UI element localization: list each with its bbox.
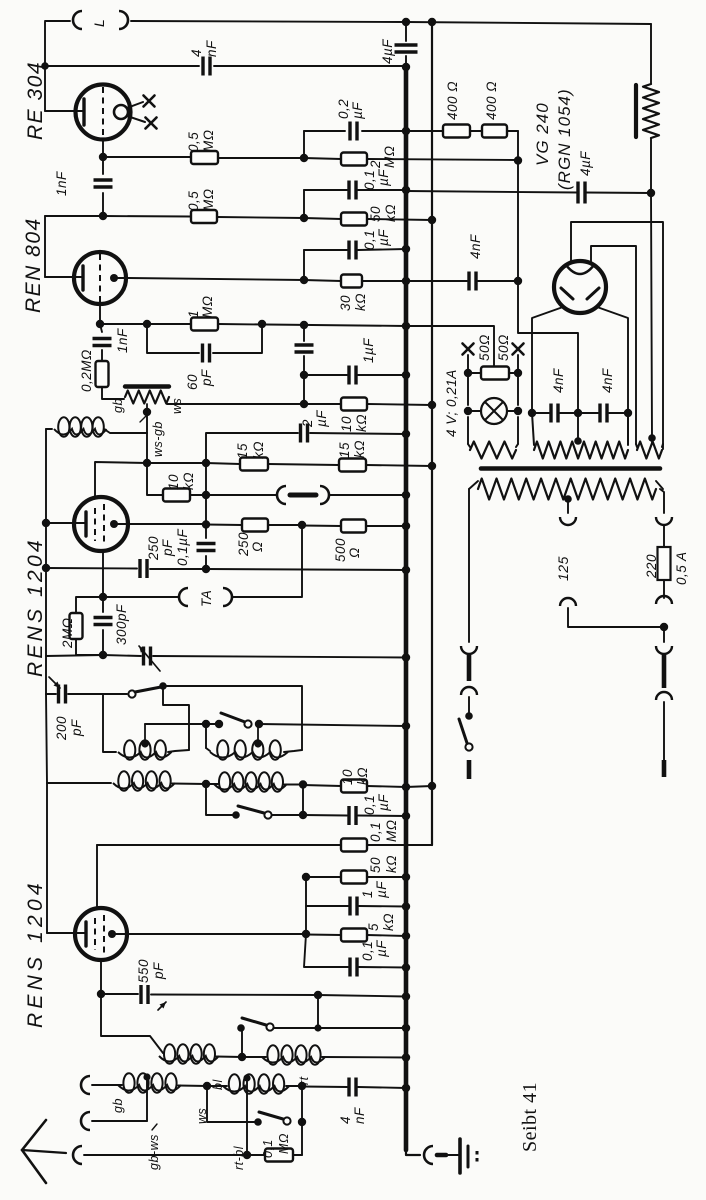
- node bus r816: [402, 812, 410, 820]
- node bus r936: [402, 932, 410, 940]
- svg-text:10: 10: [166, 474, 181, 490]
- node r525: [202, 520, 410, 530]
- svg-text:kΩ: kΩ: [383, 204, 398, 222]
- node B+ 4nF junction: [514, 277, 522, 285]
- node speaker return junction: [647, 189, 655, 197]
- wire row 400Ω: [406, 131, 518, 161]
- svg-text:nF: nF: [204, 40, 219, 57]
- svg-text:Ω: Ω: [250, 541, 265, 552]
- svg-text:kΩ: kΩ: [355, 767, 370, 785]
- wire anode decouple link: [305, 877, 307, 934]
- wire mains right lower: [663, 702, 665, 760]
- wire REN804 grid lead: [45, 216, 80, 277]
- wire jack1 to coil7: [92, 1084, 122, 1086]
- svg-text:10: 10: [339, 416, 354, 432]
- capacitor 0,1 µF (r249): [349, 229, 391, 260]
- wire rectifier anode leads: [532, 307, 628, 413]
- wire L3-L4 link: [172, 783, 218, 786]
- label VG 240 (RGN 1054): [533, 88, 574, 190]
- node TA junction: [99, 593, 107, 601]
- wire filament right column: [517, 355, 519, 444]
- REN804 anode: [110, 274, 128, 282]
- node bus r495: [402, 491, 410, 499]
- wire cathode down: [102, 569, 104, 597]
- fuse 220 0,5A: [644, 547, 689, 585]
- svg-text:kΩ: kΩ: [352, 440, 367, 458]
- capacitor 4µF (reservoir): [578, 151, 593, 204]
- node coil7-8 junction: [203, 1082, 211, 1090]
- node bias rail tap 2: [428, 462, 436, 470]
- wire RF screen lead: [96, 845, 98, 908]
- wire bias rail: [431, 22, 433, 786]
- wire detector grid lead: [46, 522, 84, 524]
- wire row 0,1µF lower: [304, 249, 406, 250]
- svg-text:550: 550: [136, 959, 151, 983]
- resistor 0,5 MΩ (lower): [186, 188, 217, 223]
- switch S1 (wave change): [128, 682, 166, 697]
- node r655: [99, 651, 107, 659]
- node bus-4µF junction: [402, 63, 410, 71]
- capacitor 1 µF (r906): [350, 881, 389, 916]
- resistor 10 kΩ (detector): [163, 472, 196, 502]
- svg-text:0,1: 0,1: [362, 170, 377, 190]
- wire row 4nF bottom: [302, 1087, 406, 1089]
- node r404: [300, 400, 436, 409]
- capacitor 0,1 µF (r815): [349, 794, 391, 825]
- rheostat gb-ws (filament): [111, 387, 184, 415]
- capacitor 0,1 µF (r190): [349, 169, 391, 200]
- svg-text:0,1: 0,1: [362, 230, 377, 250]
- connector antenna jack 2: [81, 1112, 90, 1130]
- svg-text:1µF: 1µF: [361, 338, 376, 363]
- connector earth jack: [424, 1146, 458, 1164]
- svg-text:250: 250: [236, 532, 251, 557]
- svg-text:4nF: 4nF: [600, 368, 615, 393]
- resistor 50 kΩ (r877): [341, 855, 399, 884]
- svg-text:kΩ: kΩ: [354, 414, 369, 432]
- wire coil6 to bus: [322, 1056, 406, 1059]
- wire detector anode row: [128, 524, 406, 526]
- svg-text:50Ω: 50Ω: [477, 334, 492, 361]
- node HT CT: [574, 437, 582, 445]
- svg-text:nF: nF: [352, 1107, 367, 1124]
- label REN 804: [22, 217, 45, 313]
- switch S5: [254, 1112, 290, 1126]
- svg-text:ws-gb: ws-gb: [151, 421, 165, 457]
- wire 200pF row: [46, 693, 127, 695]
- wire row 30kΩ: [304, 280, 406, 281]
- coil L2 (osc): [206, 740, 302, 760]
- svg-text:0,1: 0,1: [368, 822, 383, 842]
- resistor 5 kΩ: [341, 913, 396, 942]
- svg-text:TA: TA: [199, 590, 214, 607]
- wire 0,1µF branch r249: [303, 250, 305, 280]
- node decoupling junction A: [300, 154, 308, 162]
- coil antenna coupling: [46, 417, 107, 437]
- resistor 1 MΩ: [186, 295, 218, 330]
- resistor 0,2MΩ: [79, 349, 109, 392]
- node bus top junction: [402, 18, 436, 26]
- svg-text:kΩ: kΩ: [384, 855, 399, 873]
- wire mains right lead: [663, 627, 665, 642]
- svg-text:400 Ω: 400 Ω: [445, 81, 460, 120]
- svg-text:kΩ: kΩ: [381, 913, 396, 931]
- wire S4 feed: [241, 1028, 242, 1057]
- wire 550pF to S4: [317, 995, 319, 1028]
- svg-text:MΩ: MΩ: [384, 819, 399, 842]
- wire coil4 feed: [302, 785, 304, 816]
- svg-text:gb-ws: gb-ws: [147, 1134, 161, 1170]
- svg-text:MΩ: MΩ: [382, 145, 397, 168]
- node bus r569: [402, 566, 410, 574]
- winding primary: [469, 479, 663, 500]
- capacitor 4nF: [189, 40, 219, 76]
- connector mains left pin: [467, 760, 472, 779]
- wire row 815: [272, 815, 406, 816]
- node r1087: [298, 1082, 306, 1090]
- wire 2MΩ branch: [76, 597, 103, 655]
- wire row 0,5MΩ lower: [45, 216, 432, 220]
- svg-text:300pF: 300pF: [114, 604, 129, 645]
- wire REN804 cathode: [99, 304, 101, 324]
- svg-text:kΩ: kΩ: [353, 293, 368, 311]
- switch S2: [221, 713, 252, 728]
- svg-text:gb: gb: [111, 1098, 125, 1113]
- resistor 0,5 MΩ (upper): [186, 129, 218, 164]
- svg-text:ws: ws: [170, 398, 184, 414]
- wire TA row: [103, 596, 179, 598]
- winding HT secondary: [532, 413, 628, 459]
- svg-text:4: 4: [189, 49, 204, 57]
- resistor 250 Ω: [236, 519, 268, 558]
- node top-left corner: [44, 22, 46, 111]
- connector mains left upper: [461, 646, 477, 695]
- wire row 4nF screen: [406, 280, 518, 282]
- node detector grid: [42, 519, 50, 527]
- connector L jack: [73, 11, 128, 29]
- node grid leak junction: [99, 212, 107, 220]
- node coil4 node: [299, 780, 307, 788]
- capacitor 300 pF (variable): [114, 604, 160, 671]
- wire L4 right: [284, 784, 303, 786]
- svg-text:15: 15: [235, 443, 250, 459]
- svg-text:2: 2: [300, 419, 315, 428]
- node bus r967: [402, 963, 410, 971]
- svg-text:60: 60: [185, 374, 200, 390]
- capacitor 1nF (RE304 grid): [54, 157, 113, 216]
- node coil5-6 junction: [238, 1053, 246, 1061]
- svg-text:250: 250: [146, 536, 161, 561]
- wire rt vertical: [301, 1086, 303, 1155]
- capacitor 1nF (REN804 grid): [93, 324, 131, 361]
- label Seibt 41: [519, 1082, 541, 1152]
- wire L7-L8 link: [178, 1079, 227, 1090]
- lamp (dial light): [468, 398, 518, 424]
- svg-text:4: 4: [338, 1116, 353, 1124]
- node rt line: [298, 1118, 306, 1126]
- terminal X right: [513, 344, 524, 355]
- svg-text:0,1: 0,1: [362, 795, 377, 815]
- node bus r249: [402, 245, 410, 253]
- node coil3-4 junction: [202, 780, 210, 788]
- resistor 0,1 MΩ: [341, 819, 399, 851]
- wire RF cathode: [100, 960, 102, 994]
- resistor 0,1 MΩ (antenna): [261, 1133, 293, 1161]
- svg-text:125: 125: [555, 556, 571, 581]
- node bus r996: [402, 992, 410, 1000]
- wire S1 branch to coil1: [163, 686, 189, 750]
- connector 125 lower: [560, 598, 576, 606]
- connector 220 lower: [656, 596, 672, 604]
- svg-text:µF: µF: [374, 881, 389, 898]
- wire rt-bl tap: [232, 1078, 247, 1170]
- wire 0,2µF branch: [304, 131, 406, 158]
- node r281 decouple: [300, 276, 410, 285]
- node bus r434: [402, 430, 410, 438]
- capacitor 0,2 µF: [336, 99, 365, 141]
- svg-text:2MΩ: 2MΩ: [60, 617, 75, 649]
- wire detector cathode: [102, 551, 104, 569]
- resistor 50Ω 50Ω (hum pot): [468, 334, 518, 379]
- capacitor 550 pF (variable): [136, 959, 166, 1010]
- wire 125V tap: [567, 499, 569, 513]
- connector mains right upper: [656, 646, 672, 700]
- svg-text:MΩ: MΩ: [201, 188, 216, 211]
- capacitor 200 pF (variable): [49, 677, 84, 741]
- switch S4: [237, 1018, 273, 1032]
- node r463 junctions: [143, 459, 210, 467]
- tube RENS 1204 (detector): [74, 497, 128, 551]
- resistor 400 Ω (second): [482, 81, 507, 138]
- label ws-gb tap: [140, 416, 165, 457]
- connector antenna jack 3: [73, 1146, 82, 1164]
- tube RE 304: [76, 85, 131, 140]
- svg-text:pF: pF: [160, 539, 175, 557]
- wire 0,2MΩ to rheostat: [102, 387, 124, 399]
- capacitor 300pF fixed: [94, 597, 113, 655]
- capacitor 1 µF (r375): [349, 366, 356, 385]
- node bus r326: [402, 322, 410, 330]
- svg-text:0,2MΩ: 0,2MΩ: [79, 349, 94, 392]
- resistor 15 kΩ (second): [337, 440, 367, 472]
- wire row 550pF: [101, 994, 406, 997]
- wire row 463: [147, 462, 206, 464]
- label 125: [555, 556, 571, 581]
- svg-text:0,2: 0,2: [336, 99, 351, 119]
- wire B+ to reservoir: [406, 191, 651, 193]
- wire row 300pF: [46, 655, 406, 658]
- wire RE304 anode lead: [45, 110, 76, 112]
- antenna symbol: [22, 1120, 66, 1183]
- svg-text:bl: bl: [211, 1079, 225, 1090]
- wire RE304 grid down: [102, 139, 104, 157]
- wire coil8 right: [286, 1076, 311, 1086]
- node bus r657: [402, 653, 410, 661]
- capacitor 0,1 µF (r967): [350, 940, 389, 977]
- svg-text:pF: pF: [151, 962, 166, 980]
- svg-text:4nF: 4nF: [551, 368, 566, 393]
- wire 0,1µF anode branch: [304, 934, 406, 968]
- wire gb-ws tap: [92, 1077, 161, 1170]
- wire tap down: [146, 433, 148, 463]
- wire row 15kΩ: [206, 463, 432, 466]
- wire TA return: [232, 525, 302, 597]
- svg-text:0,5: 0,5: [186, 191, 201, 211]
- node r724: [202, 720, 263, 728]
- wire primary right lead: [660, 489, 664, 513]
- winding 4V secondary: [468, 442, 518, 459]
- wire rectifier filament lead B: [591, 246, 636, 444]
- connector jack with plug: [277, 486, 329, 504]
- wire HT centre tap: [577, 413, 579, 443]
- resistor 400 Ω (first): [443, 81, 470, 138]
- tube REN 804: [74, 252, 126, 304]
- wire rectifier filament lead A: [571, 222, 663, 449]
- node bus r1028: [402, 1024, 410, 1032]
- capacitor 60 pF: [185, 344, 214, 391]
- node bottom row: [243, 1151, 251, 1159]
- coil L8 (antenna bl-rt): [223, 1074, 289, 1094]
- svg-text:4µF: 4µF: [380, 39, 395, 64]
- wire row 1µF: [306, 905, 406, 908]
- svg-text:400 Ω: 400 Ω: [484, 81, 499, 120]
- node RE304 grid junction: [99, 153, 107, 161]
- detector anode: [110, 520, 128, 528]
- svg-text:L: L: [91, 19, 107, 27]
- svg-text:4nF: 4nF: [468, 234, 483, 259]
- tube RENS 1204 (RF): [75, 908, 127, 960]
- resistor 50 kΩ (bias): [341, 204, 398, 226]
- speaker (zigzag with bar): [636, 84, 659, 138]
- node coil7 tap: [143, 1073, 150, 1080]
- coil L1 (osc): [103, 694, 189, 760]
- resistor 10 kΩ (r786): [340, 767, 370, 793]
- node r1028: [314, 1024, 321, 1031]
- tube VG 240 rectifier: [554, 261, 606, 313]
- svg-text:REN 804: REN 804: [22, 217, 45, 313]
- wire row 0,5MΩ upper: [103, 157, 518, 160]
- svg-text:Seibt 41: Seibt 41: [519, 1082, 541, 1152]
- label RENS 1204 (detector): [24, 537, 47, 677]
- capacitor 4 nF (right): [600, 368, 615, 423]
- wire top rail: [45, 21, 651, 24]
- node bus r1088: [402, 1084, 410, 1092]
- connector mains right pin: [662, 760, 667, 777]
- node bus r131: [402, 127, 410, 135]
- resistor 10 kΩ (screen feed): [339, 398, 369, 433]
- wire tap to S3: [206, 784, 234, 815]
- wire 50Ω tap: [406, 326, 494, 366]
- svg-text:0,5 A: 0,5 A: [674, 551, 689, 585]
- transformer core: [481, 466, 660, 471]
- svg-text:MΩ: MΩ: [277, 1133, 291, 1154]
- svg-text:1: 1: [186, 310, 201, 318]
- svg-text:gb: gb: [111, 398, 125, 413]
- svg-text:RENS 1204: RENS 1204: [24, 537, 47, 677]
- svg-text:RENS 1204: RENS 1204: [24, 879, 47, 1028]
- connector 125 upper: [560, 517, 576, 525]
- svg-text:VG 240: VG 240: [533, 102, 552, 166]
- node B+ feed corner: [514, 156, 522, 164]
- svg-text:1nF: 1nF: [54, 171, 69, 196]
- svg-text:5: 5: [366, 923, 381, 931]
- resistor 2MΩ (grid leak): [60, 613, 83, 649]
- node left rail r569: [42, 564, 50, 572]
- svg-text:220: 220: [644, 554, 659, 579]
- wire bottom row: [84, 1154, 302, 1156]
- wire row 786: [303, 785, 432, 787]
- svg-text:4µF: 4µF: [578, 151, 593, 176]
- wire 60pF branch: [147, 324, 262, 353]
- svg-text:30: 30: [338, 295, 353, 311]
- ground symbol: [460, 1139, 477, 1173]
- wire fuse lower: [663, 580, 665, 598]
- node r995: [97, 990, 322, 999]
- wire 1µF branch lower: [303, 375, 305, 404]
- node bus r906: [402, 902, 410, 910]
- svg-text:50Ω: 50Ω: [496, 334, 511, 361]
- node r569: [202, 565, 210, 573]
- wire x205 link: [205, 463, 207, 525]
- wire row 1028: [274, 1027, 406, 1029]
- RE304 filament loop: [114, 105, 128, 119]
- svg-text:1: 1: [360, 890, 375, 898]
- wire filament left column: [467, 355, 469, 444]
- wire coil to tap: [104, 412, 147, 433]
- svg-text:RE 304: RE 304: [24, 61, 47, 140]
- svg-text:(RGN 1054): (RGN 1054): [555, 88, 574, 190]
- svg-text:MΩ: MΩ: [201, 129, 216, 152]
- wire row 413: [532, 412, 628, 414]
- node bias rail tap 1: [428, 216, 436, 224]
- wire row 724: [145, 724, 406, 726]
- coil L4 (RF): [214, 772, 287, 792]
- svg-text:10: 10: [340, 769, 355, 785]
- wire grid line mid: [46, 523, 47, 783]
- svg-text:pF: pF: [69, 719, 84, 737]
- svg-text:Ω: Ω: [347, 547, 362, 558]
- wire fuse lead: [663, 525, 665, 547]
- svg-text:15: 15: [337, 442, 352, 458]
- wire row 50kΩ: [306, 876, 406, 878]
- connector antenna jack 1: [81, 1076, 90, 1094]
- wire detector screen lead: [95, 462, 147, 498]
- node r217 decouple: [300, 214, 308, 222]
- terminal X left: [463, 344, 474, 355]
- svg-text:µF: µF: [376, 229, 391, 246]
- resistor 30 kΩ: [338, 275, 368, 312]
- capacitor 4 nF (antenna): [338, 1078, 367, 1125]
- wire row 0,1MΩ: [97, 786, 432, 845]
- wire to switch: [468, 697, 470, 714]
- wire REN804 anode row: [128, 278, 304, 280]
- svg-text:0,5: 0,5: [186, 132, 201, 152]
- switch mains: [459, 712, 473, 750]
- capacitor 2 µF: [300, 410, 329, 443]
- svg-text:kΩ: kΩ: [251, 441, 266, 459]
- node r815: [299, 811, 307, 819]
- coil L5: [159, 1044, 219, 1064]
- wire 0,1µF branch r190: [303, 190, 305, 218]
- wire primary left lead: [468, 489, 470, 642]
- resistor 15 kΩ (first): [235, 441, 268, 471]
- svg-text:µF: µF: [376, 169, 391, 186]
- node r934: [302, 930, 310, 938]
- wire 125 link: [568, 608, 664, 627]
- switch S3: [232, 806, 271, 819]
- node cathode junction: [96, 320, 308, 329]
- svg-text:50: 50: [368, 206, 383, 222]
